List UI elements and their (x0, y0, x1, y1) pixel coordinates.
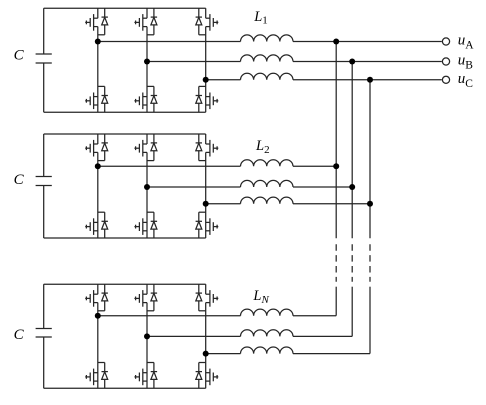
svg-text:C: C (14, 172, 25, 188)
svg-text:C: C (14, 47, 25, 63)
svg-text:C: C (14, 327, 25, 343)
